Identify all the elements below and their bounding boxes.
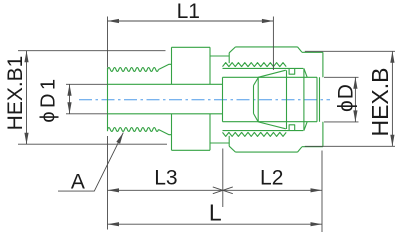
svg-text:HEX.B1: HEX.B1 — [4, 56, 27, 131]
svg-text:ϕD: ϕD — [335, 83, 358, 112]
HEX.B extension lines — [305, 51, 395, 146]
L1 right arrow — [262, 19, 274, 23]
neck top — [210, 55, 229, 57]
svg-text:L3: L3 — [154, 167, 177, 190]
L1 extension line right — [272, 17, 274, 71]
L3 left arrow — [108, 188, 120, 192]
nut internal shoulder — [303, 68, 305, 130]
phiD extension lines — [324, 77, 359, 122]
thread to hex transition bottom — [159, 130, 172, 135]
HEX.B dimension line — [391, 51, 393, 146]
svg-text:L1: L1 — [177, 0, 200, 23]
A leader arrowhead — [116, 133, 123, 144]
phiD arrows — [353, 77, 357, 122]
L dimension line — [108, 223, 323, 225]
straight thread top zigzag — [223, 63, 287, 67]
straight thread root lines — [223, 68, 304, 130]
NPT thread bottom zigzag — [108, 128, 159, 132]
hex body — [172, 47, 211, 150]
A leader line — [58, 133, 123, 192]
back ferrule notch bottom — [289, 125, 295, 131]
front ferrule back face — [257, 78, 259, 122]
phiD dimension line — [354, 77, 356, 122]
front ferrule nose chamfers — [254, 78, 259, 122]
L3 L2 dimension line — [108, 189, 323, 191]
phiD1 dimension line — [69, 84, 71, 114]
phiD1 arrows — [67, 84, 71, 114]
L2 right arrow — [311, 188, 323, 192]
svg-text:ϕD1: ϕD1 — [38, 75, 60, 122]
phiD1 extension lines — [66, 84, 108, 114]
HEX.B1 arrows — [24, 51, 28, 145]
counterbore step face — [222, 77, 224, 121]
L left arrow — [108, 222, 120, 226]
front ferrule nose face — [253, 86, 255, 114]
bottom extension line left — [107, 136, 109, 230]
svg-text:L: L — [209, 199, 222, 225]
L1 extension line left — [107, 17, 109, 68]
L right arrow — [311, 222, 323, 226]
L1 left arrow — [108, 19, 120, 23]
HEX.B arrows — [390, 51, 394, 146]
neck bottom — [210, 142, 229, 144]
tube hole lines phi D — [223, 77, 318, 121]
bore lines phi D1 — [108, 84, 223, 114]
svg-text:HEX.B: HEX.B — [367, 67, 393, 136]
HEX.B1 dimension line — [26, 51, 28, 145]
back ferrule front face — [286, 70, 288, 129]
left face of male NPT end — [107, 68, 109, 131]
front ferrule taper diagonals — [258, 70, 286, 129]
nut outline — [229, 47, 323, 152]
L1 dimension line — [108, 20, 274, 22]
back ferrule notch top — [289, 68, 295, 74]
bottom extension line right — [321, 151, 323, 233]
L3 L2 junction cross arrows — [213, 187, 233, 194]
bottom extension line middle — [222, 149, 224, 208]
thread to hex transition top — [159, 64, 172, 69]
NPT thread top zigzag — [108, 68, 159, 72]
nut face hole chamfer lines — [317, 77, 320, 121]
shoulder chamfer diagonals — [304, 68, 307, 130]
svg-text:L2: L2 — [260, 167, 283, 190]
HEX.B1 extension lines — [18, 51, 167, 145]
centerline — [79, 99, 330, 101]
svg-text:A: A — [71, 170, 85, 193]
straight thread bottom zigzag — [223, 132, 287, 136]
